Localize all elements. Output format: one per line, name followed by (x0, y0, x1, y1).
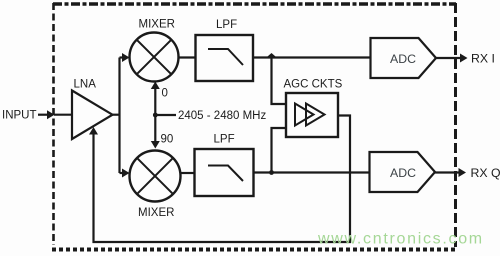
junction on LO line (153, 113, 158, 118)
wire: Q tap up to AGC input (272, 128, 287, 173)
svg-text:AGC CKTS: AGC CKTS (284, 79, 343, 91)
svg-text:2405 - 2480 MHz: 2405 - 2480 MHz (178, 110, 266, 122)
low-pass filter LPF (I) (196, 19, 254, 81)
AGC CKTS block (284, 79, 343, 138)
svg-text:LPF: LPF (216, 19, 237, 31)
wire: mixer I to LPF I (179, 56, 196, 58)
svg-text:90: 90 (161, 134, 174, 146)
svg-text:MIXER: MIXER (138, 207, 174, 219)
wire: LPF Q output to ADC Q (254, 171, 370, 173)
wire: AGC output feedback to LNA (94, 116, 351, 243)
svg-text:ADC: ADC (390, 166, 416, 180)
amplifier triangle 2 inside AGC (306, 104, 325, 126)
svg-text:www.cntronics.com: www.cntronics.com (317, 231, 484, 248)
label 90 (LO phase) (161, 134, 174, 146)
arrow down into mixer Q LO port (151, 141, 160, 149)
dashed chip boundary (52, 3, 456, 250)
wire: mixer Q to LPF Q (181, 172, 195, 174)
svg-text:LNA: LNA (74, 79, 97, 91)
low-pass filter LPF (Q) (195, 134, 254, 197)
node: AGC tap on I wire (268, 53, 276, 57)
label MIXER (top) (139, 19, 175, 31)
svg-text:LPF: LPF (214, 134, 235, 146)
amplifier LNA (72, 79, 113, 140)
label MIXER (bottom) (138, 207, 174, 219)
svg-text:0: 0 (162, 88, 168, 100)
arrow up into mixer I LO port (151, 82, 160, 90)
mixer U2 (Q) (130, 151, 181, 202)
net label RX I (471, 52, 495, 66)
svg-text:RX I: RX I (471, 52, 495, 66)
amplifier triangle 1 inside AGC (295, 104, 314, 126)
local oscillator distribution line (155, 86, 176, 143)
watermark www.cntronics.com (317, 231, 484, 248)
node INPUT label (2, 110, 37, 122)
arrowhead feedback into LNA (89, 127, 98, 135)
wire/arrow: ADC Q output to RX Q (435, 168, 466, 177)
wire: INPUT to LNA with arrowhead at boundary (38, 110, 72, 119)
svg-text:RX Q: RX Q (471, 166, 500, 180)
label 0 (LO phase) (162, 88, 168, 100)
wire/arrow: ADC I output to RX I (436, 54, 468, 63)
arrow into mixer Q (122, 169, 130, 178)
ADC (I) (371, 38, 437, 78)
wire: I tap down to AGC input (272, 58, 287, 105)
svg-text:INPUT: INPUT (2, 110, 37, 122)
svg-text:MIXER: MIXER (139, 19, 175, 31)
ADC (Q) (370, 152, 436, 192)
net label RX Q (471, 166, 500, 180)
mixer U1 (I) (130, 33, 179, 82)
wire: LNA output bus to mixers (113, 58, 124, 174)
node: AGC tap on Q wire (269, 170, 274, 175)
arrow into mixer I (122, 53, 130, 62)
wire: LPF I output to ADC I (253, 56, 371, 58)
value label 2405 - 2480 MHz (178, 110, 266, 122)
svg-text:ADC: ADC (390, 52, 416, 66)
